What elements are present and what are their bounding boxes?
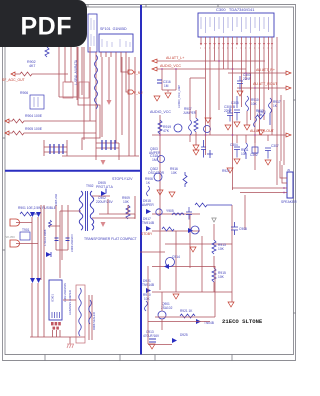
svg-text:SF101 G1N05D: SF101 G1N05D <box>100 27 127 31</box>
svg-text:F_R: F_R <box>134 71 141 75</box>
svg-text:STOP1Y12V: STOP1Y12V <box>112 177 133 181</box>
svg-text:10K: 10K <box>218 247 225 251</box>
svg-text:B: B <box>233 105 235 109</box>
svg-text:C307: C307 <box>271 144 279 148</box>
svg-text:10K: 10K <box>251 102 258 106</box>
svg-text:10K: 10K <box>171 171 178 175</box>
svg-text:Y905: Y905 <box>166 209 174 213</box>
svg-text:C908: C908 <box>239 227 247 231</box>
svg-text:10K: 10K <box>144 297 151 301</box>
svg-text:R901 10E,2.5W FUSIBLE: R901 10E,2.5W FUSIBLE <box>18 206 57 210</box>
svg-text:4K7: 4K7 <box>29 64 35 68</box>
svg-text:T901: T901 <box>22 228 30 232</box>
svg-text:C300 TDA7340/G41: C300 TDA7340/G41 <box>216 7 255 12</box>
svg-text:STDBY: STDBY <box>141 232 153 236</box>
svg-text:470UF/16V: 470UF/16V <box>143 334 160 338</box>
svg-text:R906: R906 <box>20 91 28 95</box>
svg-text:T902: T902 <box>86 184 94 188</box>
svg-text:AUDIO_VCC: AUDIO_VCC <box>160 64 181 68</box>
svg-text:C914: C914 <box>172 255 180 259</box>
svg-text:22NF: 22NF <box>224 109 232 113</box>
svg-text:L-SEAL-MURATA: L-SEAL-MURATA <box>74 59 78 85</box>
svg-text:PROT.UT.A: PROT.UT.A <box>96 185 114 189</box>
svg-text:220UF/25V: 220UF/25V <box>96 200 113 204</box>
svg-text:10K: 10K <box>257 113 264 117</box>
svg-text:2SA102: 2SA102 <box>161 306 173 310</box>
svg-text:21ECO SLTONE: 21ECO SLTONE <box>222 318 263 325</box>
svg-text:AU ATT_ROUT: AU ATT_ROUT <box>253 82 278 86</box>
svg-text:R904 100E: R904 100E <box>25 114 43 118</box>
svg-text:10K: 10K <box>218 275 225 279</box>
svg-text:C905 2N2: C905 2N2 <box>54 193 58 206</box>
svg-text:D908 SEALED: D908 SEALED <box>92 312 96 330</box>
svg-text:J9: J9 <box>287 168 290 172</box>
svg-text:AUDIO_VCC: AUDIO_VCC <box>150 110 171 114</box>
svg-text:1M: 1M <box>164 84 169 88</box>
svg-text:1M: 1M <box>152 158 157 162</box>
svg-text:TN914B: TN914B <box>142 283 155 287</box>
svg-text:C304: C304 <box>230 143 238 147</box>
svg-text:R921 1K: R921 1K <box>180 309 193 313</box>
svg-text:C909 2N2/2KV: C909 2N2/2KV <box>70 234 74 252</box>
svg-text:SPEAKER: SPEAKER <box>281 200 297 204</box>
svg-text:AMPER: AMPER <box>149 151 161 155</box>
svg-text:AUDIO_VCC_AMP: AUDIO_VCC_AMP <box>177 85 181 108</box>
svg-text:F_N.2: F_N.2 <box>134 91 143 95</box>
svg-text:L-SEAL D906: L-SEAL D906 <box>43 229 47 246</box>
svg-text:PDF: PDF <box>21 13 73 41</box>
svg-text:AU ATT_R+: AU ATT_R+ <box>256 68 275 72</box>
svg-text:C302: C302 <box>250 153 258 157</box>
svg-text:SF_AGC_OUT: SF_AGC_OUT <box>2 78 25 82</box>
svg-text:IC901: IC901 <box>51 294 55 302</box>
svg-text:D925: D925 <box>180 333 188 337</box>
svg-text:10K: 10K <box>123 200 130 204</box>
svg-text:TN914B: TN914B <box>142 221 155 225</box>
svg-text:C903 2N2/250V: C903 2N2/250V <box>63 283 67 302</box>
svg-text:AMPER: AMPER <box>142 203 154 207</box>
svg-text:47K: 47K <box>163 129 170 133</box>
svg-text:AU ATT_L+: AU ATT_L+ <box>166 56 184 60</box>
svg-text:AC/MAINS JUMPER: AC/MAINS JUMPER <box>68 290 72 315</box>
svg-text:N8-350: N8-350 <box>5 235 15 239</box>
svg-text:10K: 10K <box>241 152 248 156</box>
svg-text:TRANSFORMER FLAT COMPACT: TRANSFORMER FLAT COMPACT <box>84 237 137 241</box>
svg-text:R905 100E: R905 100E <box>25 127 43 131</box>
svg-text:22NF: 22NF <box>243 77 251 81</box>
